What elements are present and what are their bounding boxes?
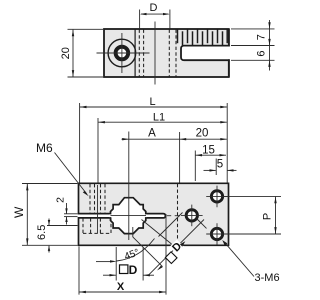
svg-text:P: P (262, 213, 274, 220)
svg-text:20: 20 (196, 127, 209, 139)
svg-text:D: D (150, 2, 158, 14)
svg-text:M6: M6 (36, 141, 53, 155)
svg-text:7: 7 (256, 34, 268, 40)
svg-text:2: 2 (54, 197, 66, 203)
svg-text:A: A (148, 128, 156, 140)
svg-text:3-M6: 3-M6 (255, 272, 280, 284)
svg-text:15: 15 (202, 144, 215, 156)
svg-text:6.5: 6.5 (36, 225, 48, 240)
svg-text:6: 6 (256, 50, 268, 56)
svg-text:D: D (129, 263, 138, 277)
svg-text:L: L (149, 96, 155, 108)
svg-text:5: 5 (217, 159, 223, 171)
svg-text:X: X (117, 281, 125, 293)
svg-text:W: W (12, 206, 26, 218)
svg-text:45°: 45° (123, 247, 141, 263)
svg-text:20: 20 (60, 47, 72, 59)
svg-text:L1: L1 (153, 111, 165, 123)
